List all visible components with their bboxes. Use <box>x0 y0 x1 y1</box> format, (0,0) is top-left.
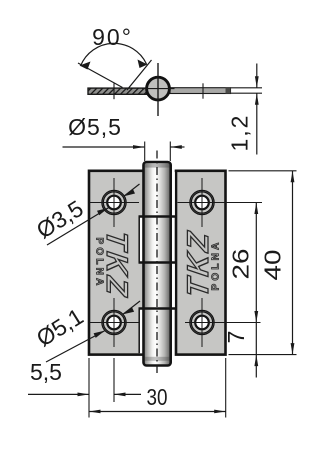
svg-text:7: 7 <box>223 331 249 344</box>
arrowhead pointing left at barrel right <box>170 145 182 149</box>
svg-text:5,5: 5,5 <box>30 359 62 385</box>
knuckle joint line 3 <box>139 307 177 310</box>
arrowhead 30 right <box>214 410 226 414</box>
arrowhead 26 bottom <box>254 311 258 323</box>
right leaf plate <box>176 171 226 355</box>
screw hole top right <box>178 178 263 227</box>
tail line 7 arrow <box>255 355 257 378</box>
short leader at top hole upper right <box>124 184 140 196</box>
left leaf plate <box>89 171 144 355</box>
knuckle joint line 2 <box>139 261 177 264</box>
arrowhead 5,5 pointing left <box>114 393 126 397</box>
svg-text:30: 30 <box>147 384 168 410</box>
screw hole bottom right <box>185 298 261 347</box>
left leaf (top view, hatched bar) <box>88 88 147 94</box>
short leader at bottom hole upper right <box>123 301 140 314</box>
extension line bottom hole centre down <box>113 358 115 402</box>
vertical centerline of barrel (top view) <box>157 63 159 116</box>
TKZ POLNA logo on right leaf (rotated 90 ccw) <box>182 228 221 300</box>
arrowhead 7 outside below <box>254 355 258 367</box>
arrowhead 30 left <box>89 410 101 414</box>
pin centreline (dash-dot) <box>156 151 158 376</box>
shading band bottom cap <box>145 357 170 361</box>
left leaf cut edge lower <box>138 309 140 354</box>
arrowhead at outer circle top hole <box>124 189 135 196</box>
dim line left segment <box>63 146 145 148</box>
knuckle barrel circle (top view) <box>147 77 170 100</box>
dim line 40 <box>292 171 294 355</box>
svg-text:90°: 90° <box>92 24 133 50</box>
horizontal centerline of barrel (top view) <box>142 88 175 90</box>
extension line left leaf edge down <box>88 358 90 418</box>
extension line right leaf edge down <box>225 358 227 418</box>
arc arrowhead left <box>80 62 91 70</box>
angle leg left <box>78 63 123 88</box>
arrowhead 5,5 pointing right <box>78 393 90 397</box>
clearance slot right lower <box>172 264 175 308</box>
knuckle joint line 1 <box>139 215 177 218</box>
arrowhead 1,2 up <box>255 93 259 105</box>
extension line barrel left edge <box>144 142 146 162</box>
arrowhead 40 bottom <box>291 343 295 355</box>
arrowhead at outer circle bottom hole <box>123 307 134 314</box>
dim line 1,2 upper <box>256 64 258 88</box>
screw hole bottom left <box>90 298 140 347</box>
svg-text:POLNA: POLNA <box>211 240 222 291</box>
dim line 5,5 right tail <box>114 393 141 395</box>
arrowhead 26 top <box>254 203 258 215</box>
extension line bottom of leaf end <box>231 92 262 94</box>
clearance slot left lower <box>140 309 143 353</box>
svg-text:POLNA: POLNA <box>94 238 105 289</box>
extension line leaf bottom edge <box>229 354 297 356</box>
dim line 7 <box>255 323 257 355</box>
extension line top of leaf end <box>231 87 262 89</box>
angle leg right <box>127 60 152 90</box>
arrowhead 1,2 down <box>255 76 259 88</box>
svg-text:1,2: 1,2 <box>227 114 253 152</box>
arrowhead 40 top <box>291 171 295 183</box>
svg-text:Ø3,5: Ø3,5 <box>32 195 88 243</box>
clearance slot right upper <box>172 172 175 216</box>
dim line 1,2 lower <box>256 93 258 154</box>
clearance slot left upper (between left leaf and knuckle) <box>140 217 143 262</box>
arrowhead at outer circle bottom hole <box>94 331 105 338</box>
svg-text:26: 26 <box>228 249 254 280</box>
TKZ POLNA logo on left leaf (rotated 90 cw) <box>94 229 133 301</box>
svg-text:Ø5,5: Ø5,5 <box>68 114 122 140</box>
hole centre tick on right leaf (top view) <box>202 83 204 98</box>
dim line 5,5 left tail <box>28 393 89 395</box>
dim line 30 <box>89 411 226 413</box>
hole centre tick on left leaf (top view) <box>113 83 115 99</box>
arc arrowhead right <box>138 60 148 69</box>
angle dimension arc <box>81 43 147 66</box>
shading band top cap <box>145 164 170 168</box>
leader line for diameter 5,1 <box>46 331 105 362</box>
extension line leaf top edge <box>229 170 297 172</box>
dim line 26 <box>255 203 257 323</box>
left leaf cut edge upper <box>138 217 140 263</box>
hinge pin / knuckle column <box>144 162 171 366</box>
right leaf (top view, solid bar) <box>170 88 231 94</box>
arrowhead at inner circle top hole <box>97 208 108 215</box>
dim line right segment <box>170 146 184 148</box>
arrowhead pointing right at barrel left <box>133 145 145 149</box>
right leaf end cap (top view) <box>226 88 231 94</box>
screw hole top left: countersink circle <box>90 178 140 227</box>
extension line barrel right edge <box>169 142 171 162</box>
svg-text:40: 40 <box>260 250 286 281</box>
leader line for diameter 3,5 <box>47 208 108 245</box>
